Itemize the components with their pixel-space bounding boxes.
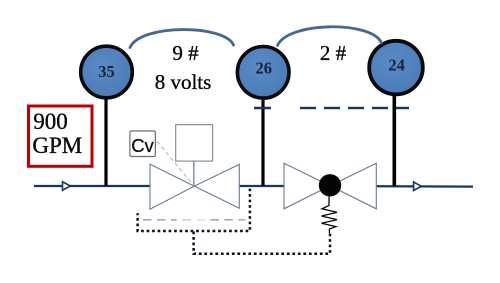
svg-text:35: 35 — [98, 62, 115, 81]
wire actuator stem — [193, 161, 195, 186]
dashed feedback loop around V1 — [138, 189, 250, 231]
actuator box of V1 — [176, 125, 213, 161]
spring of valve V2 — [322, 196, 338, 233]
wire stem gauge 35 — [104, 96, 107, 186]
wire stem gauge 24 — [392, 94, 396, 186]
arc between gauge 35 and gauge 26 — [130, 30, 234, 48]
ball valve V2 body — [284, 163, 376, 209]
flow label box 900 GPM — [29, 106, 93, 166]
gauge 26 — [237, 47, 289, 99]
Cv callout box — [130, 131, 156, 157]
wire stem gauge 26 — [261, 97, 264, 186]
control valve V1 body — [150, 164, 239, 209]
svg-text:900: 900 — [33, 109, 68, 134]
wire main pipe inlet segment — [34, 185, 150, 187]
svg-text:8 volts: 8 volts — [155, 70, 212, 94]
flow arrow outlet — [414, 182, 422, 191]
gauge 24 — [369, 41, 423, 95]
arc between gauge 26 and gauge 24 — [278, 27, 382, 46]
svg-text:2 #: 2 # — [320, 41, 347, 65]
svg-text:GPM: GPM — [32, 133, 82, 158]
light dashed inner line — [143, 219, 245, 221]
leader line from Cv — [157, 141, 194, 185]
svg-text:Cv: Cv — [131, 135, 154, 156]
gauge 35 — [81, 46, 133, 98]
svg-text:9 #: 9 # — [172, 41, 199, 65]
flow arrow inlet — [63, 182, 71, 191]
svg-text:24: 24 — [388, 56, 405, 75]
svg-text:26: 26 — [256, 59, 273, 78]
dashed setpoint line — [254, 107, 409, 109]
wire pipe between valves — [239, 185, 285, 187]
dashed signal line to V2 spring — [194, 232, 330, 254]
ball of valve V2 — [319, 174, 341, 196]
wire pipe outlet segment — [376, 185, 473, 188]
